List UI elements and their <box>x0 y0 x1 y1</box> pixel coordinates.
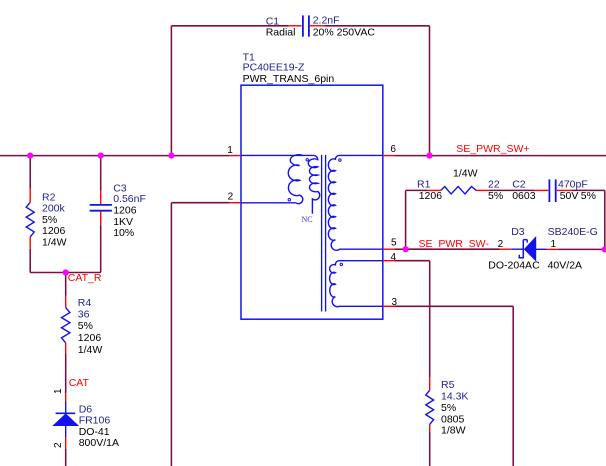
wire - C3 column lower <box>100 226 102 273</box>
capacitor C2 plates <box>548 179 550 202</box>
svg-text:5%: 5% <box>488 190 503 202</box>
wire - D3 cathode side wire to right edge <box>559 248 606 250</box>
transformer T1 primary lead pin2 <box>241 202 296 204</box>
svg-text:36: 36 <box>78 309 90 321</box>
wire - pin2 horizontal <box>171 202 229 204</box>
junction on main net at C3 <box>98 153 104 159</box>
wire - main horizontal net left segment <box>0 155 230 157</box>
svg-text:SB240E-G: SB240E-G <box>548 226 598 238</box>
wire - C1 branch top horizontal left of C1 <box>171 25 288 27</box>
wire - pin4 horizontal <box>394 260 429 262</box>
diode D6 pin stub top <box>65 393 67 401</box>
svg-text:1/4W: 1/4W <box>42 236 67 248</box>
resistor R5 zigzag body <box>426 390 434 424</box>
resistor R4 pin stub bottom <box>65 343 67 354</box>
transformer T1 primary lead pin1 <box>241 154 314 156</box>
transformer T1 pin 2 stub <box>230 202 241 204</box>
diode D6 pin stub bottom <box>65 437 67 449</box>
resistor R1 zigzag body <box>441 187 476 195</box>
svg-text:14.3K: 14.3K <box>441 391 468 403</box>
svg-text:5%: 5% <box>42 214 57 226</box>
wire - pin4 vertical down to R5 <box>429 261 431 378</box>
wire - C1 branch riser left <box>170 26 172 156</box>
svg-text:4: 4 <box>391 252 397 263</box>
resistor R5 pin stub top <box>429 378 431 391</box>
junction at right edge C2/D3 node <box>602 246 606 252</box>
transformer T1 core lines <box>321 155 323 312</box>
diode D6 anode lead <box>65 426 67 437</box>
svg-text:R5: R5 <box>441 379 455 391</box>
resistor R1 pin stub right <box>476 189 489 191</box>
diode D3 triangle <box>524 237 535 261</box>
transformer T1 secondary top polarity dot <box>339 159 341 161</box>
svg-text:1KV: 1KV <box>113 216 133 228</box>
svg-text:C2: C2 <box>512 178 526 190</box>
wire - right edge drop from C2 branch <box>604 190 606 249</box>
svg-text:1206: 1206 <box>419 190 443 202</box>
svg-text:800V/1A: 800V/1A <box>79 437 119 449</box>
svg-text:0.56nF: 0.56nF <box>113 193 146 205</box>
transformer T1 primary winding 1 <box>288 155 303 204</box>
svg-text:1/4W: 1/4W <box>453 168 478 180</box>
transformer T1 pin 6 stub <box>383 155 395 157</box>
transformer T1 pin 5 stub <box>383 248 395 250</box>
svg-text:3: 3 <box>392 297 398 308</box>
wire - pin5 to junction segment <box>394 248 405 250</box>
svg-text:5%: 5% <box>441 402 456 414</box>
diode D3 schottky cathode bar <box>519 240 527 258</box>
wire - pin3 horizontal <box>394 305 513 307</box>
svg-text:DO-204AC: DO-204AC <box>488 260 540 272</box>
svg-text:50V: 50V <box>560 190 579 202</box>
junction at CAT_R node <box>63 269 69 275</box>
svg-text:40V/2A: 40V/2A <box>548 260 582 272</box>
svg-text:1/8W: 1/8W <box>441 425 466 437</box>
transformer T1 pin 4 stub <box>383 260 395 262</box>
svg-text:PC40EE19-Z: PC40EE19-Z <box>243 62 305 74</box>
wire - R5 bottom to bottom edge <box>429 432 431 466</box>
wire - pin2 vertical down to bottom edge <box>170 203 172 466</box>
svg-text:2.2nF: 2.2nF <box>313 15 340 27</box>
capacitor C3 pin stub bottom <box>100 212 102 226</box>
wire - R1 to C2 segment <box>490 189 535 191</box>
wire - C3 column upper <box>100 156 102 191</box>
capacitor C3 pin stub top <box>100 191 102 204</box>
svg-text:CAT: CAT <box>69 377 90 389</box>
transformer T1 secondary winding bottom (pins 4-3) <box>330 261 383 307</box>
svg-text:2: 2 <box>228 191 234 202</box>
transformer T1 pin 1 stub <box>230 155 241 157</box>
svg-text:10%: 10% <box>113 227 134 239</box>
diode D3 anode lead <box>511 248 523 250</box>
svg-text:1: 1 <box>227 145 233 156</box>
svg-text:2: 2 <box>53 442 64 448</box>
wire - C2 to right edge segment <box>571 189 604 191</box>
wire - pin3 vertical down to bottom edge <box>512 306 514 466</box>
svg-text:NC: NC <box>302 215 313 224</box>
svg-text:CAT_R: CAT_R <box>68 272 102 284</box>
svg-text:2: 2 <box>498 239 504 250</box>
svg-text:R1: R1 <box>417 178 431 190</box>
capacitor C2 pin stub left <box>534 189 548 191</box>
svg-text:5%: 5% <box>581 190 596 202</box>
svg-text:FR106: FR106 <box>79 415 111 427</box>
wire - SE_PWR_SW- horizontal to D3 <box>406 248 500 250</box>
wire - C1 branch top horizontal right of C1 <box>325 25 430 27</box>
diode D6 cathode lead <box>65 401 67 413</box>
resistor R4 pin stub top <box>65 296 67 308</box>
wire - R1 branch horizontal left segment <box>406 189 427 191</box>
svg-text:Radial: Radial <box>266 26 296 38</box>
capacitor C1 pin stub left <box>288 25 301 27</box>
transformer T1 body outline <box>241 85 383 319</box>
svg-text:200k: 200k <box>42 203 66 215</box>
transformer T1 secondary winding top (pins 6-5) <box>328 155 382 250</box>
resistor R2 pin stub bottom <box>29 237 31 249</box>
resistor R5 pin stub bottom <box>429 424 431 432</box>
junction at SE_PWR_SW- node <box>403 246 409 252</box>
resistor R1 pin stub left <box>427 189 441 191</box>
svg-text:6: 6 <box>390 144 396 155</box>
wire - D6 anode down to bottom edge <box>65 449 67 466</box>
wire - R2 column upper <box>29 156 31 189</box>
wire - R1 branch riser from SE_PWR_SW- junction <box>405 190 407 249</box>
svg-text:470pF: 470pF <box>558 178 588 190</box>
wire - C1 branch riser right <box>429 26 431 156</box>
svg-text:PWR_TRANS_6pin: PWR_TRANS_6pin <box>243 73 335 85</box>
svg-text:DO-41: DO-41 <box>79 426 110 438</box>
svg-text:D6: D6 <box>79 404 93 416</box>
diode D3 pin stub anode <box>500 248 511 250</box>
wire - R2 column lower <box>29 249 31 273</box>
transformer T1 secondary bottom polarity dot <box>340 263 342 265</box>
junction on main net at SE_PWR_SW+ / C1 riser right <box>426 153 432 159</box>
transformer T1 primary winding2 polarity dot <box>306 159 308 161</box>
resistor R4 zigzag body <box>62 308 70 343</box>
svg-text:1206: 1206 <box>42 225 66 237</box>
svg-text:5%: 5% <box>78 320 93 332</box>
wire - R4 to D6 segment (CAT net) <box>65 353 67 393</box>
diode D3 pin stub cathode <box>547 248 559 250</box>
svg-text:D3: D3 <box>511 226 525 238</box>
capacitor C1 pin stub right <box>310 25 325 27</box>
svg-text:1/4W: 1/4W <box>78 344 103 356</box>
svg-text:SE_PWR_SW-: SE_PWR_SW- <box>419 238 490 250</box>
junction on main net at C1 riser <box>168 153 174 159</box>
svg-text:5: 5 <box>391 237 397 248</box>
diode D6 cathode bar <box>56 412 76 414</box>
svg-text:20% 250VAC: 20% 250VAC <box>313 26 376 38</box>
diode D3 cathode lead <box>536 248 547 250</box>
svg-text:R4: R4 <box>78 297 92 309</box>
capacitor C3 plates <box>90 204 112 206</box>
svg-text:1: 1 <box>53 388 64 394</box>
resistor R2 pin stub top <box>29 189 31 203</box>
transformer T1 primary winding1 polarity dot <box>288 199 290 201</box>
wire - bottom horizontal joining R2 and C3 <box>30 272 101 274</box>
svg-text:R2: R2 <box>42 191 56 203</box>
wire - main horizontal net right segment (pin6 to right edge) <box>394 155 606 157</box>
capacitor C1 plates <box>302 15 304 36</box>
transformer T1 pin 3 stub <box>383 305 395 307</box>
svg-text:SE_PWR_SW+: SE_PWR_SW+ <box>456 143 529 155</box>
svg-text:1206: 1206 <box>78 332 102 344</box>
diode D6 triangle <box>53 414 78 426</box>
svg-text:22: 22 <box>488 178 500 190</box>
svg-text:0805: 0805 <box>441 413 465 425</box>
resistor R2 zigzag body <box>26 202 34 237</box>
wire - CAT_R drop from junction to R4 <box>65 273 67 296</box>
svg-text:1: 1 <box>551 239 557 250</box>
junction on main net at R2 <box>27 153 33 159</box>
capacitor C2 pin stub right <box>557 189 572 191</box>
svg-text:0603: 0603 <box>512 190 536 202</box>
transformer T1 primary winding 2 (NC) <box>308 155 319 213</box>
